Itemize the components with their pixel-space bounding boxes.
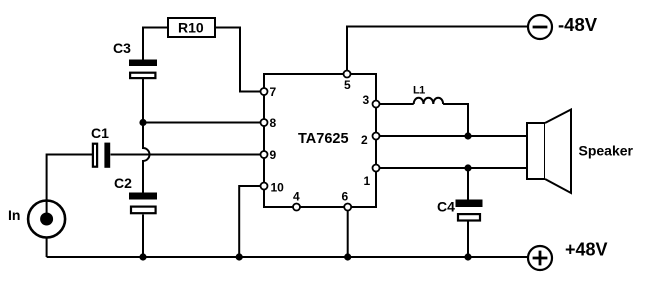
wire node C to C4 <box>467 168 469 200</box>
capacitor C4 <box>437 199 483 221</box>
wire pin 1 to speaker <box>376 167 527 169</box>
wire pin 10 to rail <box>239 186 264 257</box>
svg-text:L1: L1 <box>413 85 425 97</box>
svg-text:4: 4 <box>293 190 300 204</box>
svg-text:C2: C2 <box>114 175 132 191</box>
svg-text:C3: C3 <box>113 40 131 56</box>
wire pin 2 to speaker <box>376 135 527 137</box>
junction node C C4/pin1 <box>464 164 471 171</box>
pin 9 <box>261 148 277 162</box>
pin 8 <box>261 116 277 130</box>
wire bottom rail to +48V <box>47 256 528 258</box>
junction node B L1/pin2 <box>464 132 471 139</box>
svg-text:In: In <box>8 207 20 223</box>
pin 2 <box>361 133 380 148</box>
wire pin 6 to rail <box>347 207 349 257</box>
wire C2 bottom to rail <box>142 215 144 258</box>
wire R10 right to pin 7 <box>215 28 264 92</box>
capacitor C3 <box>113 40 157 78</box>
svg-text:1: 1 <box>364 174 371 188</box>
wire C1 right to pin 9 <box>111 154 265 156</box>
wire node A to pin 8 <box>143 122 264 124</box>
svg-text:9: 9 <box>270 148 277 162</box>
capacitor C2 <box>114 175 157 213</box>
pin 3 <box>363 93 380 108</box>
wire node A down to C2 with hop over pin9 wire <box>143 123 150 193</box>
junction node A C3/C2/pin8 <box>139 119 146 126</box>
svg-text:+48V: +48V <box>565 240 608 260</box>
wire In jack bottom to rail <box>46 238 48 257</box>
wire C3 bottom to node A <box>142 79 144 123</box>
pin 6 <box>342 190 352 211</box>
wire In jack center lead <box>46 201 48 220</box>
svg-text:7: 7 <box>270 85 277 99</box>
inductor L1 <box>414 98 443 104</box>
svg-text:C4: C4 <box>437 199 455 215</box>
resistor R10 <box>168 18 215 37</box>
svg-text:C1: C1 <box>91 125 109 141</box>
svg-text:TA7625: TA7625 <box>298 131 349 147</box>
svg-text:8: 8 <box>270 116 277 130</box>
svg-text:2: 2 <box>361 133 368 147</box>
junction rail C4 <box>464 253 471 260</box>
pin 1 <box>364 165 380 189</box>
wire C3 top to R10 left <box>143 28 168 60</box>
svg-text:-48V: -48V <box>558 14 598 35</box>
svg-text:3: 3 <box>363 93 370 107</box>
speaker <box>527 110 571 194</box>
In jack connector <box>8 201 65 238</box>
junction rail pin6 <box>344 253 351 260</box>
pin 4 <box>293 190 300 211</box>
junction rail pin10 <box>236 253 243 260</box>
wire pin 3 to L1 <box>376 103 414 105</box>
svg-text:Speaker: Speaker <box>579 143 634 159</box>
pin 5 <box>344 71 352 93</box>
junction rail C2 <box>139 253 146 260</box>
capacitor C1 <box>91 125 110 168</box>
svg-text:R10: R10 <box>178 20 204 36</box>
wire In jack to C1 left <box>47 155 92 201</box>
svg-text:5: 5 <box>344 78 351 92</box>
op-amp U1 TA7625 body <box>264 74 376 207</box>
pin 7 <box>261 85 277 99</box>
svg-text:10: 10 <box>271 181 285 195</box>
wire L1 to node B on pin2 line <box>443 104 468 136</box>
supply +48V symbol <box>528 240 608 271</box>
supply -48V symbol <box>528 14 598 39</box>
wire top rail pin5 to -48V <box>347 27 528 75</box>
pin 10 <box>261 181 285 195</box>
wire C4 bottom to rail <box>467 222 469 258</box>
svg-text:6: 6 <box>342 190 349 204</box>
